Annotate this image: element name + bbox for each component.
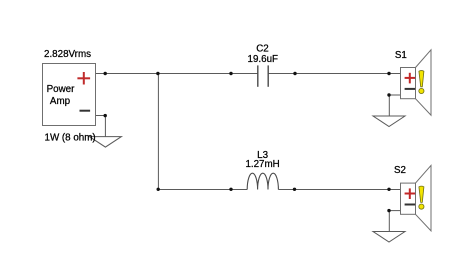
svg-text:Power: Power	[47, 84, 76, 95]
svg-text:Amp: Amp	[50, 96, 71, 107]
svg-text:C2: C2	[256, 43, 269, 54]
svg-text:S1: S1	[395, 50, 407, 61]
svg-text:S2: S2	[394, 165, 406, 176]
svg-text:2.828Vrms: 2.828Vrms	[44, 49, 91, 60]
svg-text:19.6uF: 19.6uF	[248, 54, 279, 65]
svg-text:1.27mH: 1.27mH	[245, 159, 279, 170]
svg-text:1W (8 ohm): 1W (8 ohm)	[45, 133, 96, 144]
